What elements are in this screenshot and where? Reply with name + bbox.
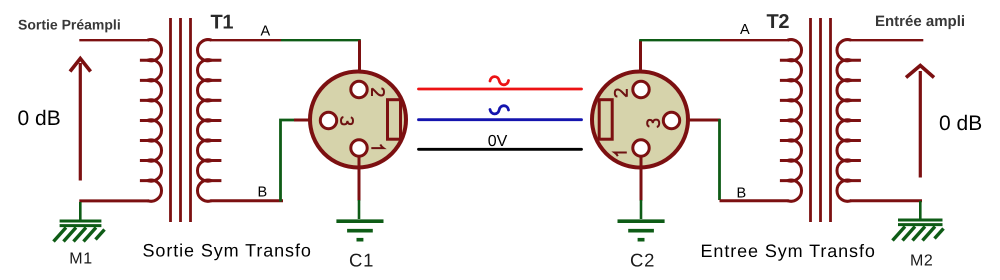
svg-text:Entree Sym Transfo: Entree Sym Transfo: [701, 241, 876, 261]
svg-text:B: B: [737, 186, 747, 202]
C1 pin label 3: [341, 117, 353, 124]
transformer T1 primary winding: [140, 40, 162, 202]
wire: preamp bottom wire to T1: [79, 199, 148, 202]
wire: into C1 pin 3 (red): [294, 119, 320, 122]
transformer T1 secondary winding: [197, 40, 221, 202]
C2 pin label 3: [647, 120, 659, 127]
wire: net B left riser (green): [281, 120, 296, 202]
svg-text:A: A: [740, 22, 750, 38]
wire: net A right (red part): [720, 39, 789, 41]
wire: drop to C1 pin 2: [358, 40, 361, 80]
C1 pin 1: [351, 140, 367, 156]
C2 pin label 2: [615, 89, 627, 97]
transformer T2 primary winding: [780, 40, 802, 202]
C2 pin 1: [633, 140, 649, 156]
svg-text:0 dB: 0 dB: [939, 112, 982, 135]
connector C1 keyway slot: [388, 100, 401, 140]
svg-text:C2: C2: [630, 250, 655, 271]
wire: net A left (red part): [211, 39, 282, 41]
svg-text:Entrée ampli: Entrée ampli: [875, 13, 965, 30]
bus line black (0V): [419, 148, 582, 151]
bus line blue (cold): [419, 118, 582, 121]
wire: C1 pin1 to ground (red inside): [358, 158, 361, 201]
wire: amp top wire: [850, 39, 923, 41]
svg-text:0 dB: 0 dB: [18, 107, 61, 130]
wire: amp bottom wire: [850, 199, 922, 202]
sine symbol blue: [490, 106, 509, 114]
bus line red (hot): [419, 88, 582, 91]
sine symbol red: [490, 77, 509, 85]
wire: net B right riser (green): [718, 119, 721, 200]
ground C1 (earth): [336, 200, 383, 240]
C1 pin 3: [320, 112, 336, 128]
svg-text:M1: M1: [69, 251, 92, 268]
transformer T2 core: [811, 18, 831, 222]
ground M1 (chassis): [54, 202, 105, 242]
wire: net A left (green part): [281, 39, 361, 41]
connector C2 body: [592, 72, 688, 168]
wire: net B right (red part): [720, 199, 789, 202]
svg-text:Sortie Sym Transfo: Sortie Sym Transfo: [143, 240, 312, 260]
ground C2 (earth): [618, 200, 665, 240]
svg-text:T1: T1: [211, 12, 234, 34]
ground M2 (chassis): [893, 201, 944, 241]
connector C2 keyway slot: [599, 100, 612, 140]
svg-text:T2: T2: [767, 11, 790, 33]
arrow: signal direction left: [70, 59, 91, 181]
svg-text:A: A: [261, 23, 271, 39]
wire: C2 pin3 out (red): [681, 119, 721, 122]
svg-text:M2: M2: [910, 252, 933, 269]
wire: preamp top wire: [79, 39, 148, 41]
C2 pin label 1: [615, 153, 627, 157]
svg-text:Sortie Préampli: Sortie Préampli: [18, 17, 121, 33]
wire: drop to C2 pin 2: [639, 40, 642, 80]
svg-text:C1: C1: [349, 250, 374, 271]
connector C1 body: [310, 72, 406, 168]
C2 pin 3: [663, 112, 679, 128]
C1 pin label 2: [372, 88, 384, 96]
wire: net B left (red part): [211, 199, 284, 202]
svg-text:0V: 0V: [488, 133, 508, 150]
transformer T2 secondary winding: [837, 40, 861, 202]
C1 pin label 1: [371, 145, 383, 149]
arrow: signal direction right: [906, 66, 934, 178]
wire: C2 pin1 to ground (red inside): [640, 158, 643, 201]
transformer T1 core: [171, 18, 191, 222]
C1 pin 2: [351, 81, 367, 97]
svg-text:B: B: [258, 184, 268, 200]
wire: net A right (green part): [639, 39, 720, 41]
C2 pin 2: [633, 81, 649, 97]
